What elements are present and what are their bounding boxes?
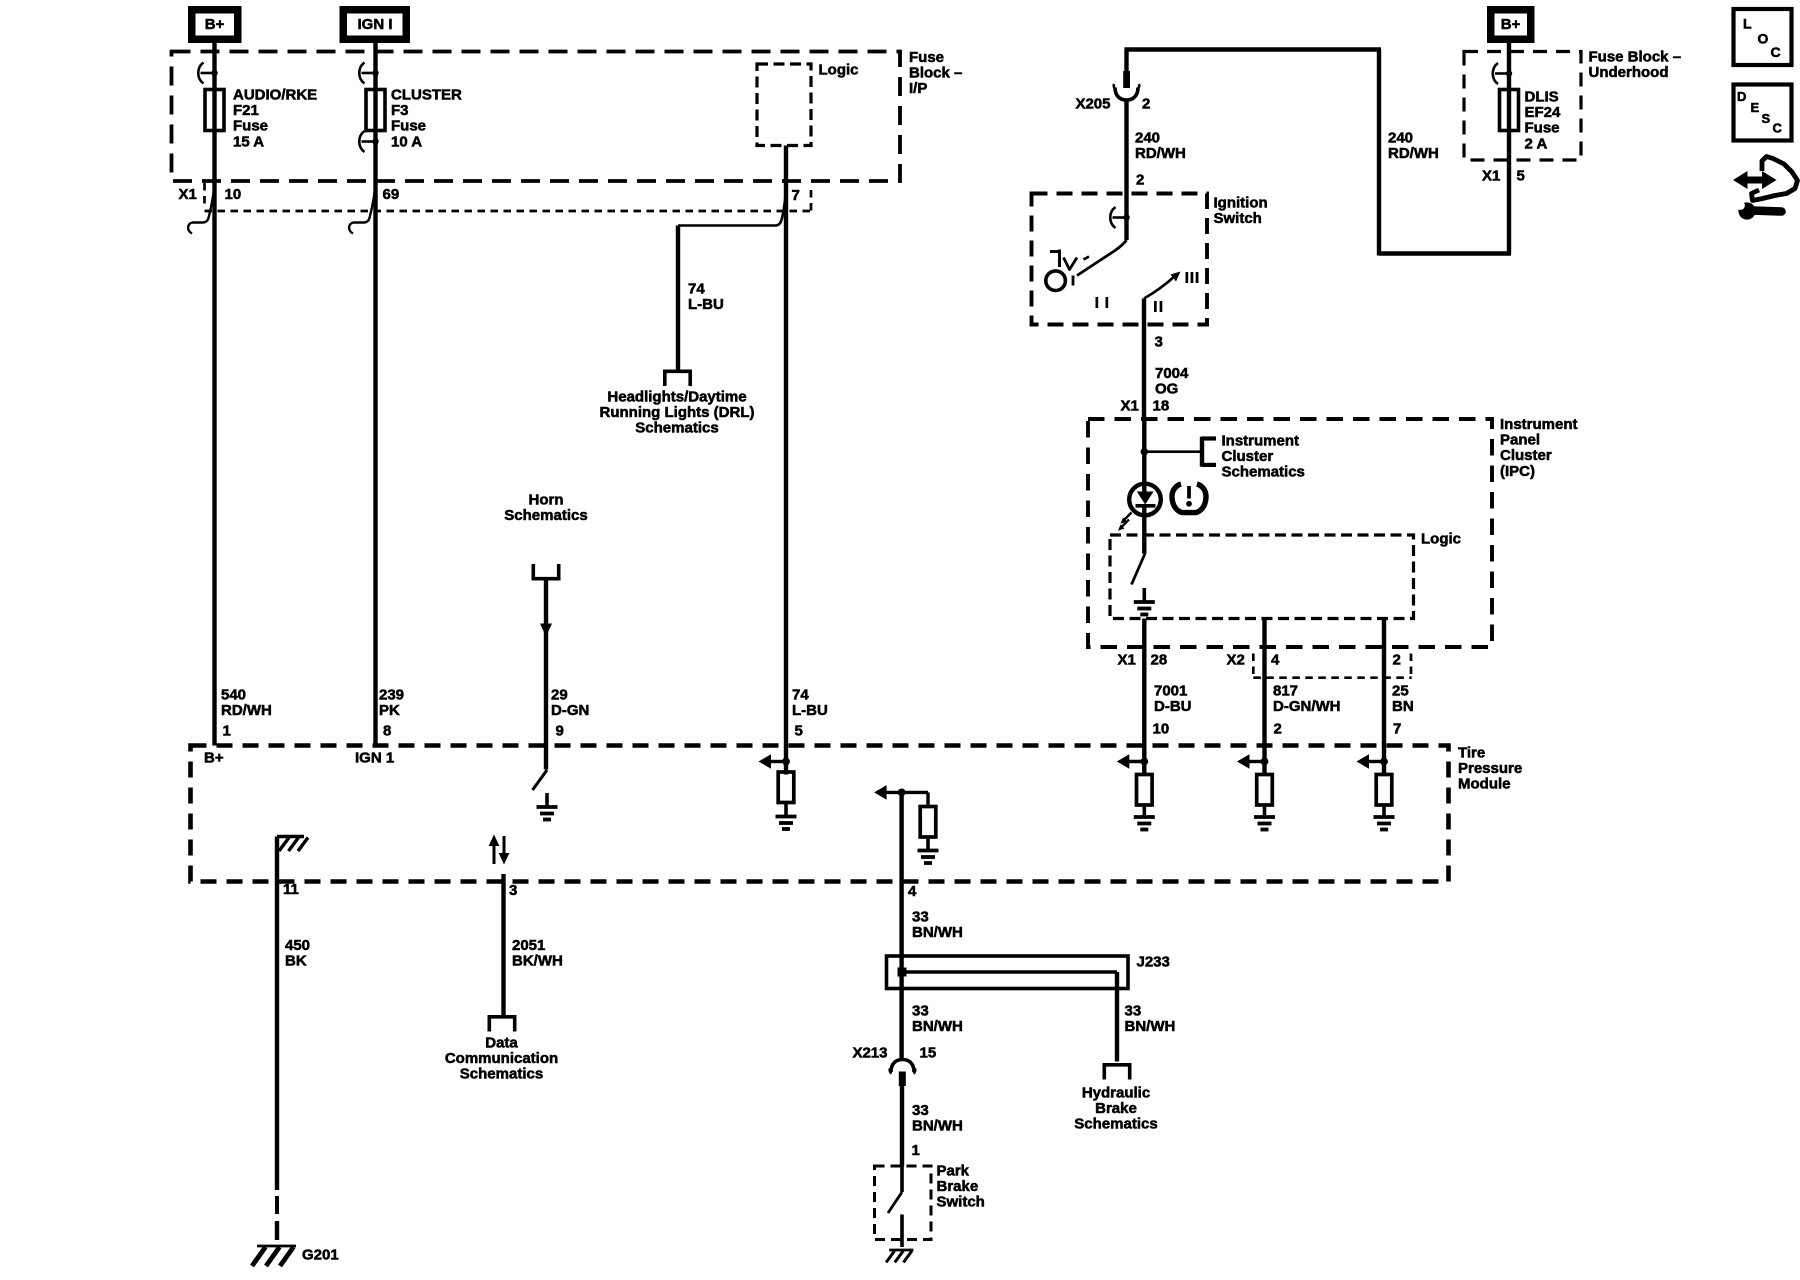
svg-text:(IPC): (IPC) [1500, 463, 1535, 480]
svg-text:450: 450 [285, 937, 310, 954]
svg-text:L: L [1743, 16, 1752, 32]
svg-text:28: 28 [1151, 652, 1168, 669]
svg-text:BK/WH: BK/WH [512, 953, 563, 970]
svg-text:Underhood: Underhood [1589, 64, 1669, 81]
svg-text:RD/WH: RD/WH [1135, 145, 1186, 162]
svg-text:F21: F21 [233, 102, 259, 119]
svg-text:BN/WH: BN/WH [912, 1118, 963, 1135]
svg-text:Block –: Block – [909, 65, 962, 82]
svg-text:Cluster: Cluster [1222, 448, 1274, 465]
svg-text:F3: F3 [391, 102, 409, 119]
svg-text:B+: B+ [1501, 16, 1521, 33]
svg-text:817: 817 [1273, 683, 1298, 700]
svg-text:Headlights/Daytime: Headlights/Daytime [607, 389, 746, 406]
svg-text:Schematics: Schematics [1222, 464, 1305, 481]
svg-text:25: 25 [1392, 683, 1409, 700]
svg-text:Instrument: Instrument [1222, 433, 1300, 450]
svg-text:Park: Park [937, 1163, 970, 1180]
svg-text:2: 2 [1393, 652, 1401, 669]
svg-text:D-GN: D-GN [551, 702, 589, 719]
svg-text:10 A: 10 A [391, 133, 422, 150]
svg-text:L-BU: L-BU [792, 702, 828, 719]
svg-text:2: 2 [1142, 96, 1150, 113]
svg-text:L-BU: L-BU [688, 296, 724, 313]
svg-text:BN/WH: BN/WH [1125, 1018, 1176, 1035]
svg-text:Data: Data [485, 1035, 518, 1052]
svg-text:Running Lights (DRL): Running Lights (DRL) [600, 404, 755, 421]
svg-text:7004: 7004 [1155, 365, 1189, 382]
svg-text:D-BU: D-BU [1154, 698, 1192, 715]
svg-text:10: 10 [225, 186, 242, 203]
svg-text:X213: X213 [852, 1045, 887, 1062]
svg-text:X205: X205 [1075, 96, 1110, 113]
svg-text:Brake: Brake [1095, 1100, 1137, 1117]
svg-text:RD/WH: RD/WH [221, 702, 272, 719]
svg-text:Tire: Tire [1458, 745, 1485, 762]
svg-text:15 A: 15 A [233, 133, 264, 150]
svg-text:10: 10 [1153, 721, 1170, 738]
svg-text:Schematics: Schematics [504, 507, 587, 524]
svg-text:X2: X2 [1227, 652, 1245, 669]
svg-text:74: 74 [688, 281, 705, 298]
svg-text:8: 8 [383, 723, 391, 740]
svg-text:Switch: Switch [1214, 210, 1262, 227]
svg-text:Fuse: Fuse [1525, 120, 1560, 137]
svg-text:O: O [1758, 31, 1769, 47]
svg-text:Hydraulic: Hydraulic [1082, 1085, 1150, 1102]
svg-text:240: 240 [1135, 130, 1160, 147]
svg-text:Panel: Panel [1500, 432, 1540, 449]
svg-text:X1: X1 [1121, 398, 1139, 415]
svg-text:Fuse: Fuse [391, 118, 426, 135]
svg-text:1: 1 [223, 723, 231, 740]
svg-text:7001: 7001 [1154, 683, 1187, 700]
svg-text:AUDIO/RKE: AUDIO/RKE [233, 87, 317, 104]
svg-text:2: 2 [1136, 172, 1144, 189]
svg-text:Switch: Switch [937, 1194, 985, 1211]
svg-text:15: 15 [920, 1045, 937, 1062]
svg-text:Logic: Logic [819, 62, 859, 79]
svg-text:33: 33 [912, 1003, 929, 1020]
svg-text:33: 33 [912, 1102, 929, 1119]
svg-text:BN: BN [1392, 698, 1414, 715]
svg-text:B+: B+ [205, 16, 225, 33]
svg-text:69: 69 [383, 186, 400, 203]
svg-text:IGN 1: IGN 1 [355, 750, 394, 767]
svg-text:IGN I: IGN I [357, 16, 392, 33]
svg-text:2051: 2051 [512, 937, 545, 954]
svg-text:X1: X1 [1118, 652, 1136, 669]
svg-text:74: 74 [792, 687, 809, 704]
svg-text:C: C [1773, 121, 1783, 136]
svg-text:3: 3 [509, 882, 517, 899]
svg-text:BK: BK [285, 953, 307, 970]
svg-text:9: 9 [556, 723, 564, 740]
svg-text:4: 4 [908, 883, 917, 900]
svg-text:Instrument: Instrument [1500, 416, 1578, 433]
svg-text:Schematics: Schematics [460, 1066, 543, 1083]
svg-text:B+: B+ [204, 750, 224, 767]
svg-text:7: 7 [1393, 721, 1401, 738]
svg-text:Fuse: Fuse [233, 118, 268, 135]
svg-text:Logic: Logic [1421, 531, 1461, 548]
svg-text:C: C [1771, 44, 1781, 60]
svg-text:29: 29 [551, 687, 568, 704]
svg-text:X1: X1 [179, 186, 197, 203]
svg-text:Fuse Block –: Fuse Block – [1589, 49, 1682, 66]
svg-text:Schematics: Schematics [1074, 1116, 1157, 1133]
svg-text:CLUSTER: CLUSTER [391, 87, 462, 104]
svg-text:RD/WH: RD/WH [1388, 145, 1439, 162]
svg-text:4: 4 [1271, 652, 1280, 669]
svg-text:2 A: 2 A [1525, 135, 1548, 152]
svg-text:Horn: Horn [529, 492, 564, 509]
svg-text:240: 240 [1388, 130, 1413, 147]
svg-text:DLIS: DLIS [1525, 89, 1559, 106]
svg-text:OG: OG [1155, 381, 1178, 398]
svg-text:PK: PK [379, 702, 400, 719]
svg-text:540: 540 [221, 687, 246, 704]
svg-text:2: 2 [1274, 721, 1282, 738]
svg-text:239: 239 [379, 687, 404, 704]
svg-text:E: E [1751, 100, 1760, 115]
svg-text:11: 11 [283, 881, 299, 898]
svg-text:5: 5 [795, 723, 803, 740]
svg-text:Fuse: Fuse [909, 49, 944, 66]
svg-text:X1: X1 [1482, 168, 1500, 185]
svg-text:Cluster: Cluster [1500, 447, 1552, 464]
svg-text:BN/WH: BN/WH [912, 924, 963, 941]
svg-text:Schematics: Schematics [635, 420, 718, 437]
svg-text:D-GN/WH: D-GN/WH [1273, 698, 1341, 715]
svg-text:5: 5 [1517, 168, 1525, 185]
svg-text:BN/WH: BN/WH [912, 1018, 963, 1035]
svg-text:J233: J233 [1137, 954, 1170, 971]
svg-text:G201: G201 [302, 1247, 339, 1264]
svg-text:D: D [1737, 89, 1746, 104]
svg-text:1: 1 [912, 1142, 920, 1159]
svg-text:Communication: Communication [445, 1050, 558, 1067]
svg-text:Module: Module [1458, 776, 1511, 793]
svg-text:33: 33 [1125, 1003, 1142, 1020]
svg-text:EF24: EF24 [1525, 104, 1562, 121]
svg-text:Brake: Brake [937, 1178, 979, 1195]
svg-text:33: 33 [912, 909, 929, 926]
svg-text:I/P: I/P [909, 80, 927, 97]
svg-text:Ignition: Ignition [1214, 195, 1268, 212]
svg-text:S: S [1762, 111, 1771, 126]
svg-text:7: 7 [792, 187, 800, 204]
svg-text:Pressure: Pressure [1458, 760, 1522, 777]
svg-text:18: 18 [1153, 398, 1170, 415]
svg-text:3: 3 [1155, 334, 1163, 351]
